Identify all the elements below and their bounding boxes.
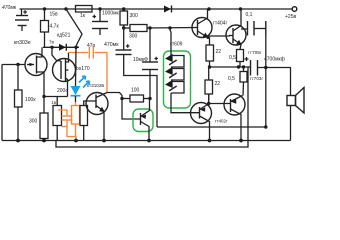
svg-text:гт703г: гт703г [250, 76, 263, 81]
capacitor orange 200 [57, 88, 76, 137]
diode KD521 [57, 33, 71, 51]
svg-text:100: 100 [131, 88, 140, 94]
node G [148, 26, 151, 29]
svg-text:100к: 100к [25, 97, 36, 103]
wire drain row [43, 46, 79, 48]
svg-text:4700мкф: 4700мкф [264, 57, 285, 63]
svg-text:0,1: 0,1 [246, 12, 253, 18]
transistor Q3 kt3102 [86, 83, 108, 141]
capacitor C1 470mk [2, 5, 29, 31]
node Y [239, 139, 243, 143]
svg-text:47p: 47p [87, 43, 96, 49]
svg-text:гт609: гт609 [170, 42, 183, 48]
diode D2 on rail [164, 6, 172, 13]
node Z [16, 139, 20, 143]
node N source row [42, 95, 45, 98]
node D [122, 7, 125, 10]
resistor 300 no2 [29, 113, 48, 141]
wire 10mkf down to green transistor [149, 98, 152, 100]
green box output transistor [133, 109, 153, 132]
lower rail [56, 67, 248, 147]
svg-text:470мк: 470мк [104, 42, 119, 48]
node M input gate [16, 63, 19, 66]
svg-text:300: 300 [129, 34, 138, 40]
node P emitter gnd [102, 139, 106, 143]
node T emitter 404 [206, 36, 209, 39]
feedback line [157, 126, 266, 128]
led VD blue [71, 47, 90, 102]
node A [43, 7, 46, 10]
resistor R box2 [53, 106, 62, 141]
resistor 0,5 upper [229, 50, 244, 68]
resistor 22 b [205, 67, 220, 100]
resistor 4.7k [41, 9, 60, 47]
resistor R box4 [80, 101, 96, 141]
resistor 22 a [206, 37, 221, 67]
node U mid divider [208, 65, 211, 68]
svg-text:bs170: bs170 [76, 66, 90, 72]
node E [122, 26, 125, 29]
resistor 300 vertical [120, 11, 138, 28]
diode chain VD3 [165, 80, 184, 93]
transistor Q7 gt402g [191, 94, 228, 141]
green box diode chain [164, 51, 191, 108]
node J rail over Q705 [239, 7, 242, 10]
wire top rail +25v [20, 8, 293, 10]
wire 402 emitter node to 703 base [209, 103, 231, 105]
wire input ground leg [1, 65, 3, 141]
transistor Q5 gt404g [192, 9, 227, 38]
transistor Q1 kp303e jfet [2, 40, 47, 76]
svg-text:200о: 200о [57, 88, 68, 94]
svg-text:1000мк: 1000мк [102, 11, 120, 17]
node X2 [207, 102, 210, 105]
terminal +25v [292, 7, 297, 12]
svg-text:15в: 15в [50, 12, 59, 18]
node O orange gnd [74, 139, 78, 143]
svg-text:гт404г: гт404г [213, 21, 227, 27]
resistor 0,5 lower [228, 67, 247, 96]
svg-text:кп303е: кп303е [14, 40, 31, 46]
svg-text:7в: 7в [49, 40, 55, 45]
resistor 300 horizontal [124, 25, 197, 40]
diode chain VD2 [165, 67, 184, 80]
capacitor 4700mkf [245, 57, 291, 96]
svg-text:470мк: 470мк [2, 5, 17, 11]
resistor 1k [76, 6, 93, 20]
svg-text:22: 22 [216, 49, 222, 55]
transistor Q6 gt705g [226, 9, 262, 56]
wire 404 emitter to 705 base [208, 36, 229, 38]
capacitor 470mk-2 [104, 28, 157, 127]
svg-text:1к: 1к [80, 13, 86, 19]
node S green T gnd [147, 139, 151, 143]
wire chain bottom to Q402 base [171, 93, 199, 113]
svg-text:гт705г: гт705г [248, 50, 262, 56]
svg-text:кд521: кд521 [57, 33, 71, 39]
svg-text:0,5: 0,5 [228, 76, 235, 82]
wire diagonal from rail [66, 9, 82, 47]
capacitor 0,1 [241, 12, 266, 127]
svg-text:0,5: 0,5 [229, 55, 236, 61]
node AB2 zobel tap [264, 66, 267, 69]
node W [242, 65, 245, 68]
svg-text:1в: 1в [52, 100, 57, 105]
wire chain top [170, 28, 171, 56]
node K gate tap [50, 46, 53, 49]
svg-text:22: 22 [215, 81, 221, 87]
capacitor 47p orange [69, 43, 108, 92]
resistor orange [72, 102, 80, 141]
speaker [287, 88, 304, 141]
resistor 100k [15, 65, 37, 141]
wire output node [210, 66, 249, 68]
node R [148, 97, 151, 100]
node I rail over Q404 [207, 7, 210, 10]
capacitor 1000mk [92, 9, 120, 35]
wire base of green transistor [122, 99, 141, 120]
svg-text:300: 300 [130, 13, 139, 19]
node AA [42, 139, 46, 143]
svg-text:300: 300 [29, 119, 38, 125]
node V [237, 65, 240, 68]
svg-text:гт402г: гт402г [215, 119, 228, 124]
node Q [120, 97, 123, 100]
transistor Q2 bs170 [52, 47, 90, 96]
wire source to box2 [43, 76, 45, 113]
transistor Q4 in green box [141, 99, 150, 141]
ground rail [2, 140, 291, 142]
svg-text:+25в: +25в [285, 14, 296, 20]
resistor 100 [107, 88, 150, 103]
node AB [264, 125, 267, 128]
node X [208, 139, 212, 143]
node B [64, 7, 67, 10]
diode chain VD1 [165, 54, 184, 67]
node L led column top [74, 46, 77, 49]
svg-text:4,7к: 4,7к [50, 24, 60, 30]
transistor Q8 gt703g [224, 76, 263, 141]
node C [98, 7, 101, 10]
node H diode chain top [168, 26, 171, 29]
capacitor 10mkf [133, 28, 158, 99]
svg-text:кт3102Б: кт3102Б [87, 83, 104, 88]
